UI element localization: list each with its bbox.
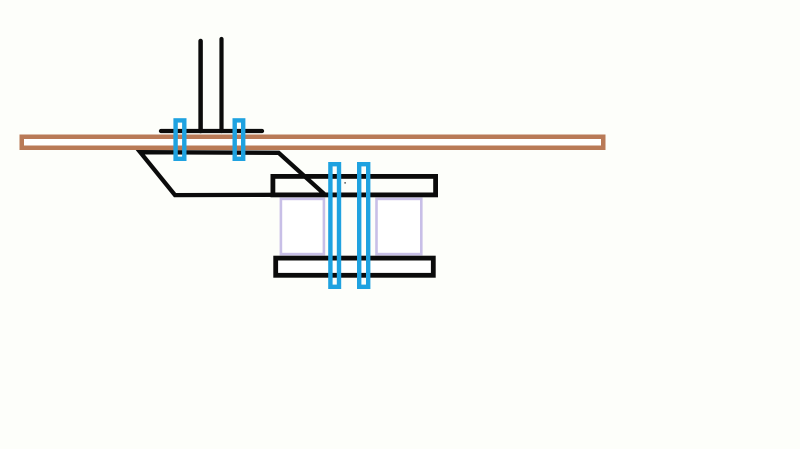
brown plank [22, 137, 604, 148]
bracket quadrilateral [140, 152, 325, 195]
right lavender spacer [377, 199, 422, 254]
left lavender spacer [281, 199, 324, 254]
top mounting bar [161, 129, 262, 133]
lower clamp plate [276, 258, 434, 275]
left vertical post [198, 41, 203, 131]
upper bolt right [235, 120, 244, 158]
stray dot [344, 182, 346, 184]
lower bolt left [330, 164, 339, 287]
lower bolt right [359, 164, 368, 287]
right vertical post [219, 39, 223, 131]
upper bolt left [176, 120, 185, 158]
upper clamp plate [273, 176, 436, 195]
